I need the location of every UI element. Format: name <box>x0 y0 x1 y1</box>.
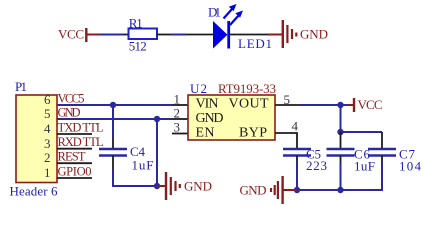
svg-text:TXD TTL: TXD TTL <box>58 121 104 135</box>
wire VOUT to VCC <box>300 104 347 106</box>
svg-text:D1: D1 <box>208 5 221 20</box>
pin D1 anode <box>186 34 213 36</box>
svg-text:3: 3 <box>174 120 181 135</box>
power ground GND (bottom left) <box>157 172 212 200</box>
pin R1.1 <box>123 34 129 36</box>
svg-text:GND: GND <box>184 179 212 194</box>
svg-text:VCC5: VCC5 <box>58 92 85 106</box>
pin C4.1 <box>112 138 114 149</box>
wire C5 to ground <box>296 162 298 190</box>
svg-text:5: 5 <box>284 92 291 107</box>
wire C4 to ground rail <box>113 169 157 186</box>
junction C6 ground <box>337 187 343 193</box>
pin P1.1 stub <box>57 177 92 179</box>
svg-text:GPIO0: GPIO0 <box>58 165 92 179</box>
svg-text:2: 2 <box>174 106 181 121</box>
wire VCC to R1 <box>99 34 123 36</box>
pin U2.4 <box>275 133 297 149</box>
svg-text:GND: GND <box>196 111 224 126</box>
resistor R1 <box>129 16 158 54</box>
wire GND row <box>57 118 172 120</box>
connector P1 <box>10 79 59 199</box>
svg-text:RXD TTL: RXD TTL <box>58 135 104 149</box>
wire branch to C7 <box>341 131 383 133</box>
pin P1.4 stub <box>57 133 92 135</box>
svg-text:GND: GND <box>300 27 328 42</box>
svg-text:4: 4 <box>44 121 51 136</box>
svg-text:VOUT: VOUT <box>229 97 269 112</box>
svg-text:512: 512 <box>129 39 147 54</box>
regulator U2 <box>188 81 276 141</box>
wire R1 to D1 <box>171 34 186 36</box>
pin P1.2 stub <box>57 162 92 164</box>
svg-text:GND: GND <box>240 183 267 198</box>
svg-text:REST: REST <box>58 150 86 164</box>
pin C4.2 <box>112 156 114 170</box>
svg-text:P1: P1 <box>15 79 27 94</box>
junction VCC5/C4 <box>110 102 116 108</box>
pin C7.1 <box>381 132 383 149</box>
junction GND column <box>154 116 160 122</box>
capacitor C4 <box>99 144 154 173</box>
pin C6.2 <box>340 156 342 163</box>
svg-text:VCC: VCC <box>58 27 84 42</box>
power ground GND (bottom middle) <box>240 176 298 204</box>
wire C6 to ground rail <box>340 162 342 190</box>
power port VCC (top left) <box>58 27 99 43</box>
svg-text:104: 104 <box>399 159 422 174</box>
svg-text:1uF: 1uF <box>354 159 375 174</box>
junction VOUT column <box>337 102 343 108</box>
svg-text:1: 1 <box>174 92 181 107</box>
svg-text:RT9193-33: RT9193-33 <box>218 81 276 96</box>
svg-text:U2: U2 <box>190 81 207 96</box>
pin U2.5 <box>275 104 300 106</box>
wire VOUT junction down <box>340 105 342 132</box>
pin D1 cathode <box>230 34 268 36</box>
svg-text:GND: GND <box>58 106 81 120</box>
wire GND column down <box>156 119 158 186</box>
power ground GND (top) <box>268 20 328 48</box>
power port VCC (right) <box>347 97 383 112</box>
svg-text:223: 223 <box>306 158 327 173</box>
pin U2.3 stub <box>172 133 188 135</box>
pin R1.2 <box>157 34 171 36</box>
svg-text:1uF: 1uF <box>132 158 154 173</box>
svg-text:VCC: VCC <box>358 97 383 112</box>
svg-text:6: 6 <box>44 92 51 107</box>
pin C7.2 <box>381 156 383 163</box>
svg-text:1: 1 <box>44 165 51 180</box>
svg-text:EN: EN <box>196 126 215 141</box>
pin C5.2 <box>296 156 298 163</box>
svg-text:5: 5 <box>44 106 51 121</box>
svg-text:4: 4 <box>292 119 299 134</box>
pin U2.1 <box>172 104 188 106</box>
pin U2.2 <box>172 118 188 120</box>
wire VCC5 row <box>57 104 172 106</box>
svg-text:Header 6: Header 6 <box>10 184 59 199</box>
wire C7 to ground rail <box>297 162 382 190</box>
svg-text:BYP: BYP <box>239 126 267 141</box>
svg-text:3: 3 <box>44 136 51 151</box>
pin C6.1 <box>340 132 342 149</box>
svg-text:2: 2 <box>44 150 51 165</box>
junction C6/C7 branch <box>337 129 343 135</box>
junction ground rail left <box>154 183 160 189</box>
capacitor C5 <box>283 147 327 174</box>
wire VCC5 junction down to C4 <box>112 105 114 138</box>
svg-text:LED1: LED1 <box>238 36 272 51</box>
svg-text:VIN: VIN <box>196 97 219 112</box>
junction ground rail right <box>294 187 300 193</box>
pin P1.3 stub <box>57 148 92 150</box>
capacitor C7 <box>368 147 422 174</box>
capacitor C6 <box>327 147 376 174</box>
svg-text:R1: R1 <box>129 16 143 31</box>
LED D1 <box>208 4 272 51</box>
